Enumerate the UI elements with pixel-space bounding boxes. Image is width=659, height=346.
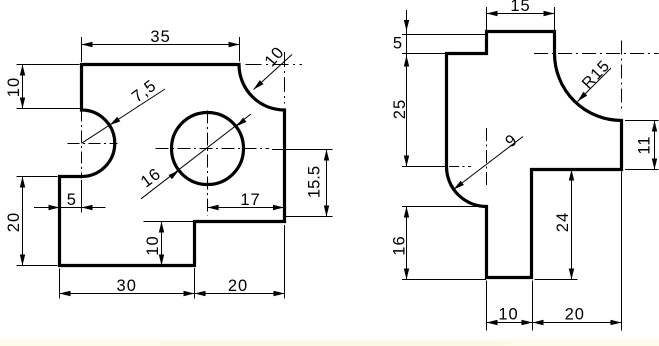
right part outline bbox=[447, 32, 622, 278]
dim 10 top-left extension bottom bbox=[17, 108, 81, 110]
svg-text:10: 10 bbox=[5, 77, 23, 97]
dim 16 right extension top bbox=[402, 206, 486, 208]
centerline circle horizontal bbox=[156, 148, 270, 150]
svg-text:24: 24 bbox=[554, 212, 572, 232]
dim 24 extension bottom bbox=[535, 279, 578, 281]
dim 20 bottom extension right bbox=[284, 225, 286, 299]
centerline R9 vertical bbox=[486, 128, 488, 186]
dim 11 extension top bbox=[625, 120, 659, 122]
centerline R15 vertical bbox=[621, 41, 623, 111]
svg-text:17: 17 bbox=[240, 191, 260, 209]
dim 5 notch line bbox=[34, 207, 106, 209]
dim 11 extension bottom bbox=[625, 169, 659, 171]
leader R15 line bbox=[578, 68, 612, 102]
dim 30 extension left bbox=[59, 269, 61, 299]
dim 10/20 bottom extension left bbox=[486, 281, 488, 331]
dim 10 top-left line bbox=[22, 65, 24, 109]
dim 15 extension right bbox=[554, 7, 556, 30]
svg-text:20: 20 bbox=[565, 306, 585, 324]
dim 20 left extension bottom bbox=[17, 265, 58, 267]
svg-text:25: 25 bbox=[391, 99, 409, 119]
dim 16 right line bbox=[406, 207, 408, 280]
centerline R15 horizontal bbox=[534, 53, 659, 55]
dim 20 left line bbox=[22, 177, 24, 266]
svg-text:20: 20 bbox=[5, 212, 23, 232]
dim 30/20 bottom line bbox=[60, 293, 285, 295]
dim 24 line bbox=[571, 170, 573, 280]
svg-text:35: 35 bbox=[150, 28, 170, 46]
dim 15 line bbox=[487, 13, 555, 15]
dim 11 line bbox=[654, 121, 656, 170]
dim 5 notch extension bbox=[81, 180, 83, 213]
dim 20 left extension top bbox=[17, 176, 58, 178]
leader R7.5 line bbox=[82, 89, 166, 143]
dim 10 step extension bbox=[144, 221, 195, 223]
centerline R9 horizontal bbox=[430, 166, 471, 168]
dim 35 extension right bbox=[239, 37, 241, 62]
dim 15 extension left bbox=[486, 7, 488, 30]
dim 5/25 line bbox=[406, 10, 408, 167]
dim 15.5 extension top bbox=[272, 149, 333, 151]
svg-text:30: 30 bbox=[117, 277, 137, 295]
dim 15.5 extension bottom bbox=[286, 216, 333, 218]
leader R10 line bbox=[254, 55, 293, 90]
leader R9 line bbox=[454, 137, 524, 190]
centerline semicircle vertical bbox=[81, 110, 83, 179]
dim 5 extension top bbox=[402, 34, 486, 36]
dim 15.5 line bbox=[326, 150, 328, 217]
left part outline bbox=[60, 65, 285, 266]
dim 10 step line bbox=[161, 222, 163, 266]
leader d16 line bbox=[141, 114, 251, 199]
svg-text:16: 16 bbox=[391, 235, 409, 255]
svg-text:11: 11 bbox=[636, 135, 654, 154]
dim 25 extension bottom bbox=[402, 166, 446, 168]
centerline semicircle horizontal bbox=[68, 143, 118, 145]
centerline circle vertical bbox=[207, 111, 209, 216]
dim 30/20 middle extension bbox=[194, 268, 196, 299]
svg-text:15: 15 bbox=[510, 0, 530, 15]
centerline R10 corner horizontal bbox=[246, 64, 303, 66]
svg-text:10: 10 bbox=[144, 235, 162, 255]
svg-text:15.5: 15.5 bbox=[306, 166, 324, 198]
svg-text:5: 5 bbox=[393, 35, 403, 53]
svg-text:10: 10 bbox=[498, 306, 518, 324]
dim 5 extension bottom bbox=[402, 53, 446, 55]
dim 35 extension left bbox=[81, 37, 83, 62]
bottom pale strip bbox=[0, 339, 659, 346]
dim 20 bottom extension right bbox=[621, 172, 623, 331]
dim 17 line bbox=[208, 207, 284, 209]
dim 10 top-left extension top bbox=[17, 64, 80, 66]
dim 16 right extension bottom bbox=[402, 279, 486, 281]
svg-text:20: 20 bbox=[228, 277, 248, 295]
svg-text:5: 5 bbox=[67, 191, 77, 209]
dim 35 line bbox=[82, 44, 240, 46]
centerline R10 corner vertical bbox=[284, 52, 286, 104]
hole circle d16 bbox=[172, 113, 244, 185]
dim 10/20 bottom extension middle bbox=[532, 281, 534, 331]
dim 10/20 bottom line bbox=[487, 322, 622, 324]
